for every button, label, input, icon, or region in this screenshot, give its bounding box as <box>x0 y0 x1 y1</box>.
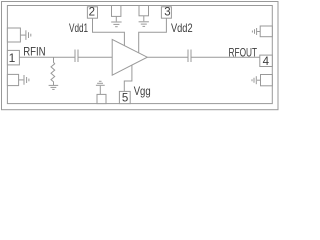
ground (pointing down) <box>111 22 121 27</box>
wire <box>20 34 25 36</box>
svg-text:Vdd2: Vdd2 <box>171 21 193 35</box>
ground (pointing right) <box>26 30 31 40</box>
ground (pointing down) <box>139 22 149 27</box>
ground (pointing up) <box>96 81 105 85</box>
pin 3 box <box>161 7 171 18</box>
wire Vgg: amp bottom edge down, jog left, down to pin5 <box>124 65 132 92</box>
wire Vdd2: pin3 down, left, down to amp top edge <box>139 18 167 53</box>
op-amp / amplifier triangle U1 <box>112 39 147 75</box>
svg-text:5: 5 <box>122 93 128 105</box>
svg-text:3: 3 <box>164 6 170 18</box>
wire amp output to C2 <box>147 56 188 58</box>
pin 5 box <box>119 91 130 103</box>
svg-text:RFIN: RFIN <box>23 45 45 59</box>
pad square (right-top, on right edge) <box>260 26 272 37</box>
svg-text:4: 4 <box>263 56 270 68</box>
pad square (bottom-center, on bottom edge) <box>97 94 106 103</box>
pad square (top, near pin 3) <box>139 6 149 16</box>
chip outline <box>7 6 272 104</box>
svg-text:Vdd1: Vdd1 <box>69 21 88 35</box>
pad square (right-bottom, on right edge) <box>261 75 273 86</box>
wire RFIN: pin1 to C1 <box>19 56 75 58</box>
pin 2 box <box>87 7 97 18</box>
capacitor C2 (series, output) <box>188 50 191 63</box>
pad square (top-left, on left edge) <box>7 28 20 42</box>
pad square (bottom-left, on left edge) <box>7 74 18 85</box>
svg-text:1: 1 <box>9 51 16 65</box>
ground (pointing right) <box>24 75 29 85</box>
resistor R1 (shunt on RFIN line) <box>51 57 55 85</box>
ground (pointing left) <box>252 76 256 84</box>
pin 1 box <box>7 50 19 65</box>
wire C1 to amp input <box>78 56 112 58</box>
pad square (top, near pin 2) <box>112 6 121 17</box>
outer frame <box>2 2 279 110</box>
pin 4 box <box>260 55 273 66</box>
svg-text:RFOUT: RFOUT <box>229 45 258 59</box>
ground (pointing left) <box>252 28 256 35</box>
capacitor C1 (series, input) <box>75 50 78 63</box>
svg-text:Vgg: Vgg <box>134 84 151 98</box>
ground under resistor <box>49 85 59 89</box>
wire Vdd1: pin2 down, right, down to amp top edge <box>93 18 125 46</box>
svg-text:2: 2 <box>89 6 95 18</box>
wire C2 to pin 4 <box>191 56 260 58</box>
